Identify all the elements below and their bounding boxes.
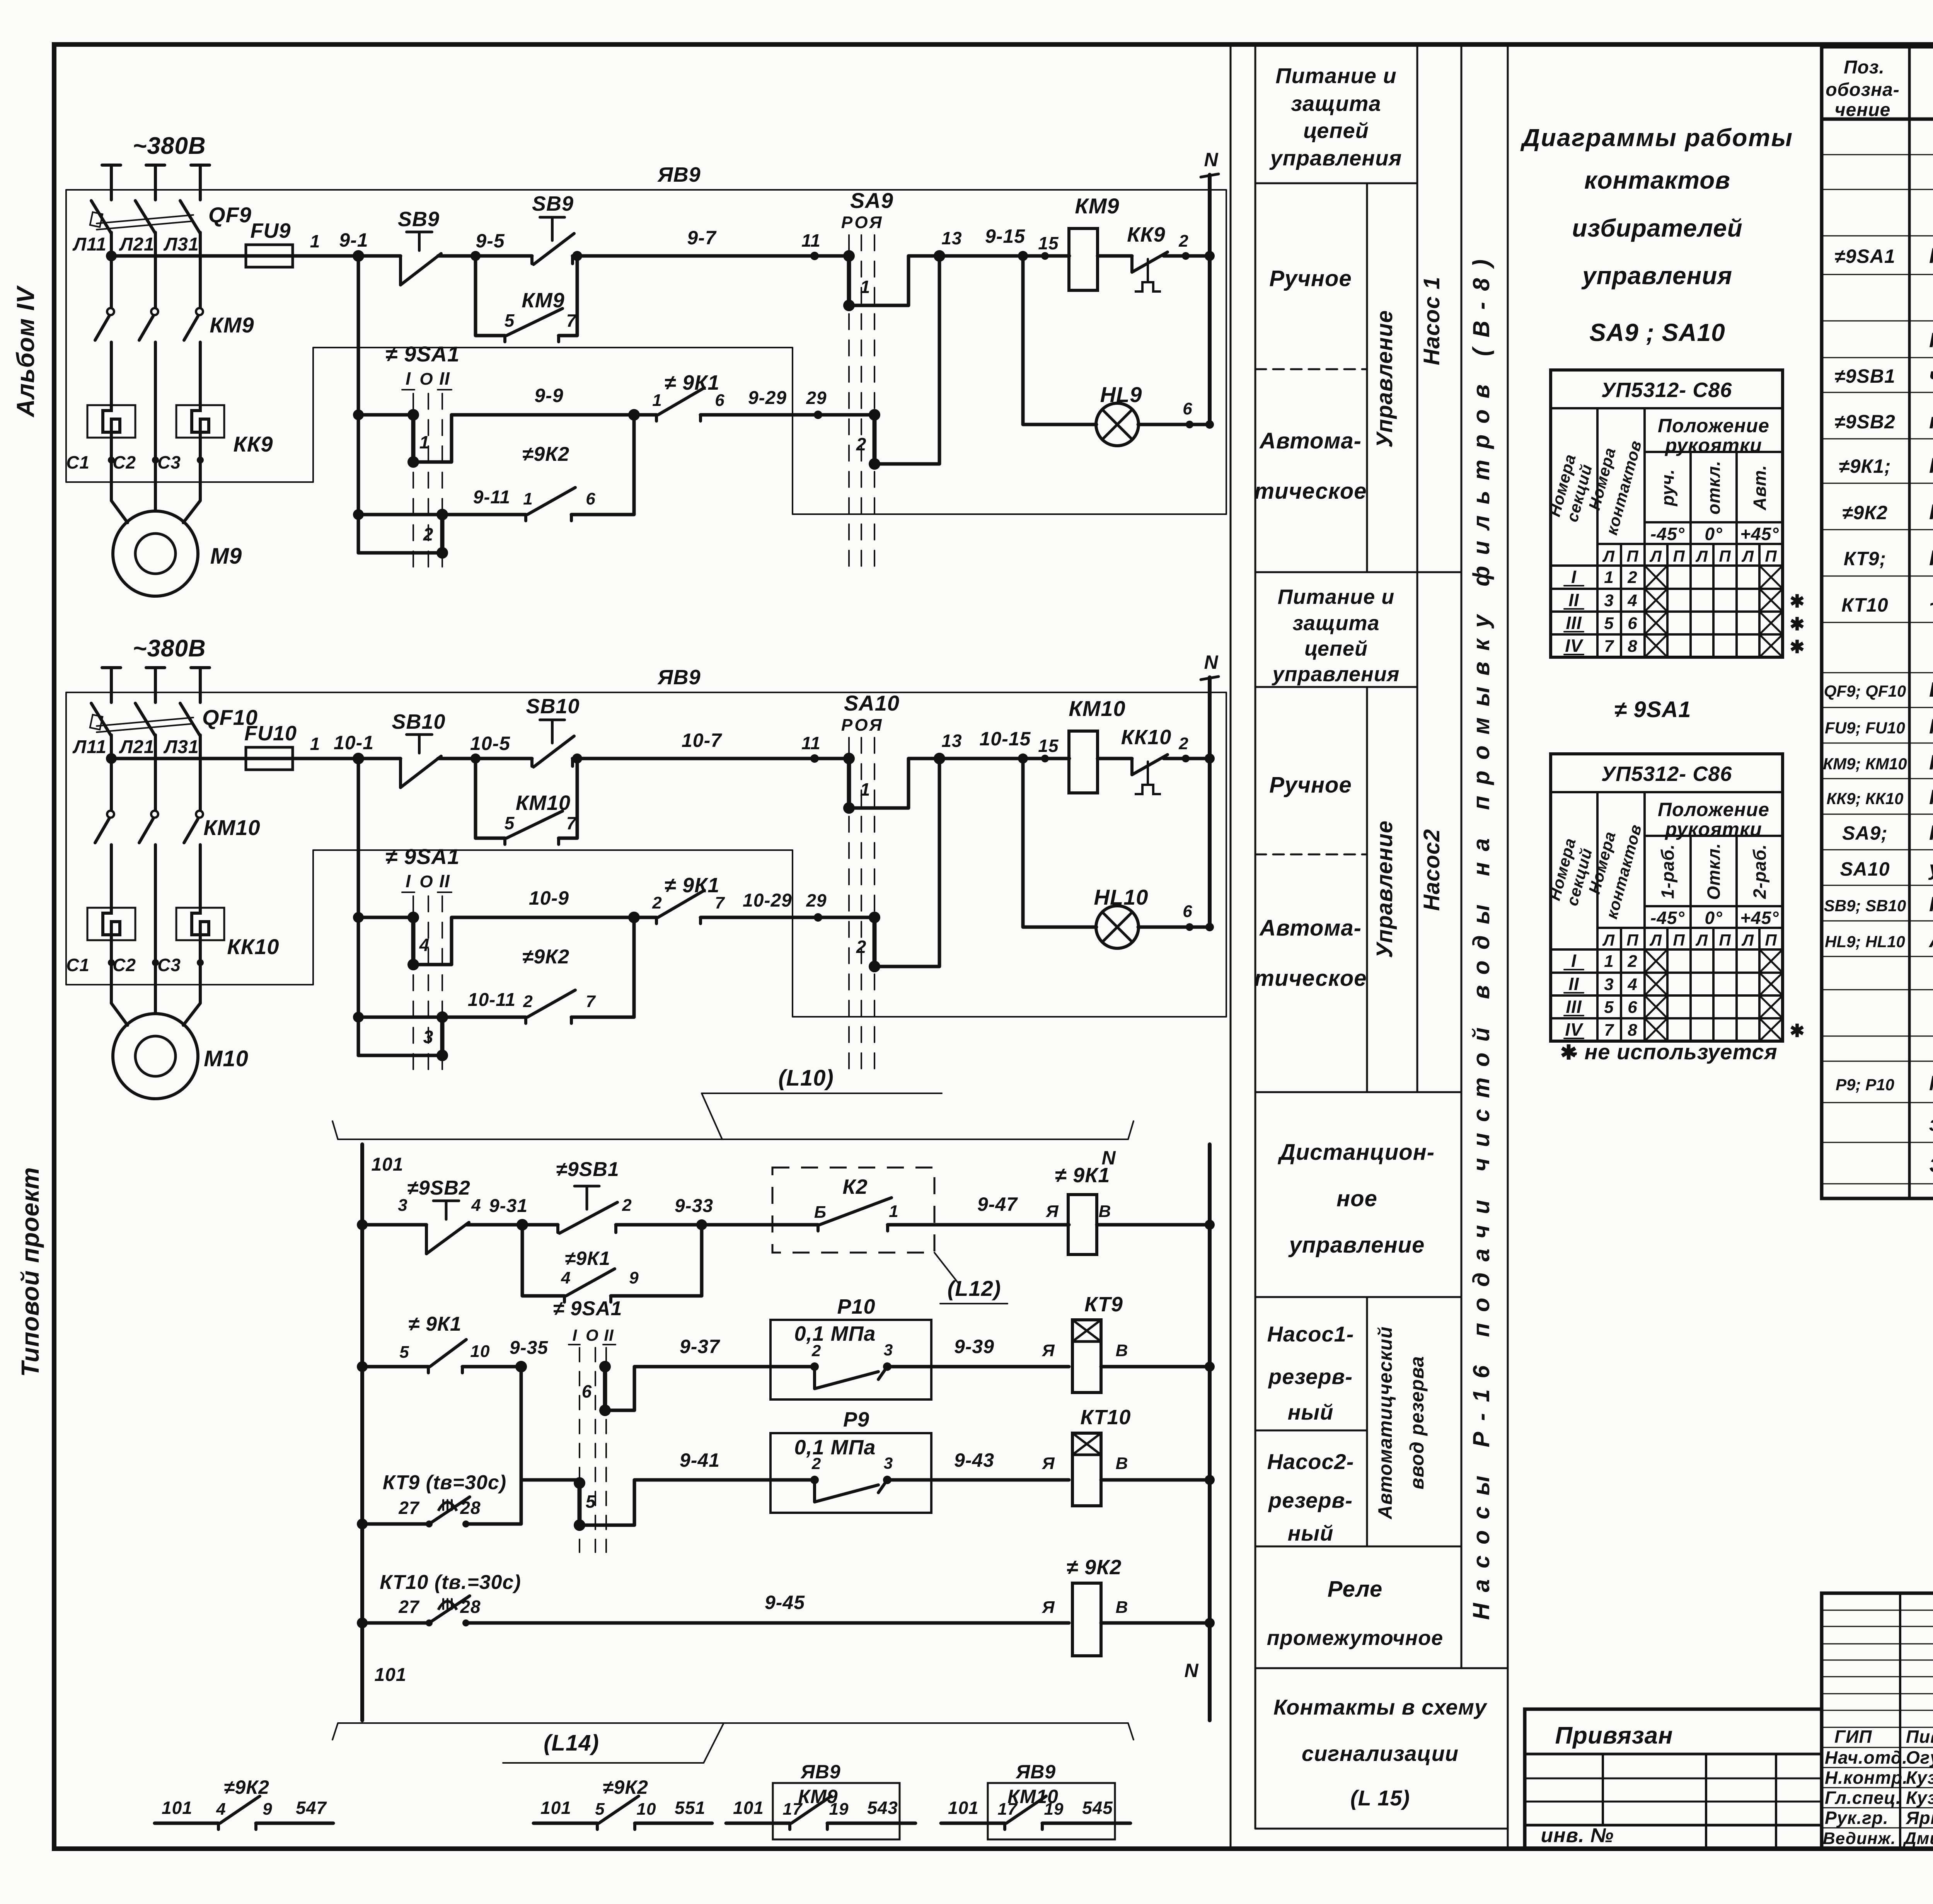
divider line between schematic field and zone-label column xyxy=(1230,44,1232,1849)
svg-text:2: 2 xyxy=(652,893,662,912)
wire to node 10-5 xyxy=(438,757,532,760)
contactor KM10 main contacts xyxy=(107,811,114,818)
svg-text:N: N xyxy=(1204,651,1218,673)
wire to node 1 xyxy=(293,757,401,760)
svg-text:11: 11 xyxy=(801,230,821,251)
node 10-1 xyxy=(353,753,364,764)
svg-text:Насос 1: Насос 1 xyxy=(1419,276,1444,365)
svg-text:11: 11 xyxy=(801,733,821,753)
svg-text:101: 101 xyxy=(162,1798,193,1818)
svg-text:Л: Л xyxy=(1602,931,1615,949)
control tap wire from Л11 (pump 10) xyxy=(111,757,246,760)
svg-text:10: 10 xyxy=(470,1342,490,1361)
svg-text:Дистанцион-: Дистанцион- xyxy=(1277,1140,1435,1165)
svg-text:Питание и: Питание и xyxy=(1278,585,1395,609)
svg-text:Л31: Л31 xyxy=(163,234,199,255)
svg-text:2: 2 xyxy=(1178,734,1188,753)
svg-text:О: О xyxy=(419,370,433,389)
thermal relay KK9 heaters xyxy=(87,405,135,438)
svg-text:Арматура сигнальная: Арматура сигнальная xyxy=(1928,929,1933,952)
svg-text:2: 2 xyxy=(856,434,867,454)
svg-text:Гл.спец.: Гл.спец. xyxy=(1825,1788,1901,1808)
svg-text:(L12): (L12) xyxy=(948,1276,1001,1301)
svg-text:ный: ный xyxy=(1288,1521,1334,1545)
zone box: Реле промежуточное xyxy=(1255,1667,1508,1669)
svg-text:КК9: КК9 xyxy=(234,432,273,456)
svg-text:тическое: тическое xyxy=(1254,479,1367,504)
svg-text:543: 543 xyxy=(867,1798,898,1818)
svg-text:УП5312- С86: УП5312- С86 xyxy=(1601,762,1732,786)
svg-text:ЭКМ-1У ; 0÷ 0,4 МПа ; ~: ЭКМ-1У ; 0÷ 0,4 МПа ; ~220В xyxy=(1929,1154,1933,1177)
svg-text:ГИП: ГИП xyxy=(1834,1727,1872,1747)
svg-text:Ярнаутов: Ярнаутов xyxy=(1906,1808,1933,1828)
rung 3: pressure switch Р9 to timer КТ10 xyxy=(520,1367,523,1480)
wire 10-9 from contact 4 to relay contact xyxy=(413,917,634,965)
svg-text:9-5: 9-5 xyxy=(476,230,505,252)
motor M10 xyxy=(113,1014,198,1099)
pushbutton SB10 (стоп) (NC) xyxy=(399,759,402,788)
zone box: Питание и защита цепей управления (насос 2) xyxy=(1255,686,1417,688)
svg-text:≠9К2: ≠9К2 xyxy=(1842,502,1888,523)
pushbutton SB10 (пуск) (NO) xyxy=(530,759,534,766)
svg-text:М9: М9 xyxy=(210,544,242,569)
svg-text:Кнопка управления КЕ011У3; и: Кнопка управления КЕ011У3; исп.2 xyxy=(1929,329,1933,352)
svg-text:SB9: SB9 xyxy=(398,208,440,231)
phase wire xyxy=(154,668,157,702)
svg-text:4: 4 xyxy=(1627,591,1637,610)
svg-text:Л11: Л11 xyxy=(72,737,107,757)
auto-mode feeder from node 10-1 xyxy=(357,759,360,1055)
svg-text:КМ10: КМ10 xyxy=(516,791,571,815)
svg-text:Питание и: Питание и xyxy=(1275,63,1396,88)
svg-text:Р9: Р9 xyxy=(843,1408,869,1431)
rung 4: timer contact КТ10 to relay ≠9К2 xyxy=(357,1618,368,1628)
svg-text:1: 1 xyxy=(310,734,320,754)
svg-text:≠ 9SA1: ≠ 9SA1 xyxy=(553,1297,622,1320)
svg-text:6: 6 xyxy=(715,391,724,410)
svg-text:КМ9; КМ10: КМ9; КМ10 xyxy=(1823,755,1907,773)
phase wire xyxy=(199,165,202,200)
svg-text:6: 6 xyxy=(582,1381,592,1401)
pushbutton SB9 (стоп) (NC) xyxy=(399,256,402,285)
svg-text:Диаграммы работы: Диаграммы работы xyxy=(1520,124,1793,152)
svg-text:≠ 9SA1: ≠ 9SA1 xyxy=(385,342,460,366)
svg-text:С3: С3 xyxy=(157,452,181,472)
svg-text:ЯВ9: ЯВ9 xyxy=(657,163,701,186)
svg-text:Реле: Реле xyxy=(1328,1577,1382,1602)
svg-text:III: III xyxy=(1566,613,1582,633)
svg-text:+45°: +45° xyxy=(1740,908,1779,928)
component list table frame xyxy=(1822,47,1933,1198)
svg-text:Пускатель магнитный: Пускатель магнитный xyxy=(1929,751,1933,774)
auto-mode feeder from node 9-1 xyxy=(357,256,360,553)
svg-text:≠ 9SA1: ≠ 9SA1 xyxy=(1614,697,1691,722)
phase supply terminal bar xyxy=(146,164,165,167)
svg-text:1: 1 xyxy=(860,779,871,799)
svg-text:101: 101 xyxy=(371,1154,403,1175)
svg-text:сигнализации: сигнализации xyxy=(1302,1741,1459,1766)
svg-text:SA10: SA10 xyxy=(844,691,900,715)
box ЯВ9 around contact КМ9 xyxy=(773,1783,900,1839)
svg-text:5: 5 xyxy=(505,813,515,833)
svg-text:В: В xyxy=(1116,1341,1128,1360)
cable bracket line (L10) xyxy=(332,1121,1134,1139)
svg-text:КТ9 (tв=30с): КТ9 (tв=30с) xyxy=(383,1471,506,1494)
contactor KM9 main contacts xyxy=(107,308,114,315)
svg-text:2: 2 xyxy=(1178,232,1188,251)
svg-text:Л11: Л11 xyxy=(72,234,107,255)
relay coil ≠9К2 xyxy=(1072,1583,1101,1656)
svg-text:Огурцов: Огурцов xyxy=(1906,1747,1933,1768)
selector SA9 contact 2 (авт.) xyxy=(873,415,877,464)
svg-text:Контакты в схему: Контакты в схему xyxy=(1273,1695,1488,1719)
svg-text:4: 4 xyxy=(216,1800,226,1819)
svg-text:Л31: Л31 xyxy=(163,737,199,757)
pushbutton ≠9SB1 (пуск) (NO) xyxy=(556,1225,559,1232)
svg-text:Л: Л xyxy=(1649,547,1662,565)
svg-text:551: 551 xyxy=(675,1798,706,1818)
zone box: Ручное (насос 2) xyxy=(1255,854,1367,856)
svg-text:Положение: Положение xyxy=(1658,415,1769,436)
rotated header Номера секций xyxy=(1596,792,1599,1041)
wire to node 2 and N xyxy=(1164,757,1210,760)
svg-text:Л: Л xyxy=(1741,547,1754,565)
svg-text:Кузнецов: Кузнецов xyxy=(1906,1788,1933,1808)
svg-text:2: 2 xyxy=(423,524,434,544)
svg-text:Ручное: Ручное xyxy=(1269,266,1352,291)
svg-text:Управление: Управление xyxy=(1372,310,1397,448)
svg-text:Я: Я xyxy=(1042,1598,1055,1617)
signal contact КМ10 17-19 wires 101/545 xyxy=(941,1822,1005,1825)
svg-text:HL9; HL10: HL9; HL10 xyxy=(1825,932,1905,951)
svg-text:I: I xyxy=(1571,951,1577,971)
junction node of auto wires xyxy=(628,912,640,923)
svg-text:Насосы Р-16 подачи чистой: Насосы Р-16 подачи чистой воды на промыв… xyxy=(1468,259,1494,1620)
svg-text:I: I xyxy=(406,368,411,389)
svg-text:15: 15 xyxy=(1038,233,1059,253)
svg-text:Рук.гр.: Рук.гр. xyxy=(1825,1808,1889,1828)
zone box: Насос 2 - резервный xyxy=(1255,1546,1461,1548)
svg-text:КМ9: КМ9 xyxy=(522,289,564,312)
svg-text:-45°: -45° xyxy=(1650,908,1685,928)
header columns руч./откл./Авт. xyxy=(1689,452,1692,657)
svg-text:+45°: +45° xyxy=(1740,524,1779,544)
svg-text:HL10: HL10 xyxy=(1094,885,1149,909)
svg-text:0,1 МПа: 0,1 МПа xyxy=(794,1322,876,1345)
svg-text:КМ9: КМ9 xyxy=(1075,194,1119,218)
table title УП5312-С86 xyxy=(1551,791,1783,793)
svg-text:П: П xyxy=(1719,931,1731,949)
svg-text:тическое: тическое xyxy=(1254,966,1367,991)
svg-text:- не используется: - не используется xyxy=(1570,1040,1778,1064)
svg-text:Л: Л xyxy=(1649,931,1662,949)
svg-text:П: П xyxy=(1626,547,1638,565)
selector diagram table frame 9SA1 xyxy=(1551,754,1783,1041)
rung 2: pressure switch Р10 to timer КТ9 xyxy=(357,1361,368,1372)
svg-text:черный ; „ Пуск": черный ; „ Пуск" xyxy=(1929,363,1933,387)
svg-text:промежуточное: промежуточное xyxy=(1267,1626,1443,1650)
svg-text:КК9: КК9 xyxy=(1127,223,1165,246)
svg-text:QF9: QF9 xyxy=(208,203,252,227)
phase supply terminal bar xyxy=(102,164,121,167)
svg-text:Нач.отд.: Нач.отд. xyxy=(1825,1747,1907,1768)
svg-text:7: 7 xyxy=(1604,637,1614,656)
node 13 xyxy=(934,753,945,764)
wire to node 1 xyxy=(293,254,401,258)
svg-text:(L10): (L10) xyxy=(778,1065,834,1091)
header Положение рукоятки xyxy=(1643,792,1646,1041)
svg-text:защита: защита xyxy=(1292,612,1379,635)
svg-text:SB10: SB10 xyxy=(526,695,580,718)
svg-text:5: 5 xyxy=(505,310,515,331)
svg-text:К2: К2 xyxy=(842,1175,868,1198)
svg-text:ное: ное xyxy=(1336,1186,1377,1211)
svg-text:≠9К2: ≠9К2 xyxy=(224,1776,269,1798)
svg-text:≠9К1: ≠9К1 xyxy=(565,1248,610,1269)
svg-text:ный: ный xyxy=(1288,1400,1334,1424)
svg-text:Переключатель: Переключатель xyxy=(1929,821,1933,844)
svg-text:9-41: 9-41 xyxy=(680,1449,720,1471)
svg-text:красный ; „ Стоп": красный ; „ Стоп" xyxy=(1929,409,1933,433)
svg-text:10-15: 10-15 xyxy=(980,728,1031,750)
contactor coil KM10 xyxy=(1069,731,1098,793)
svg-text:15: 15 xyxy=(1038,736,1059,756)
svg-text:управления: управления xyxy=(1272,663,1400,686)
svg-text:9-31: 9-31 xyxy=(489,1196,528,1216)
svg-text:10-1: 10-1 xyxy=(334,732,374,753)
svg-text:ввод резерва: ввод резерва xyxy=(1406,1356,1428,1489)
wire 9-7 to selector xyxy=(573,254,849,258)
phase supply terminal bar xyxy=(102,666,121,669)
svg-text:Реле времени РВП72-3121-00У4: Реле времени РВП72-3121-00У4; xyxy=(1929,545,1933,570)
svg-text:1: 1 xyxy=(652,391,662,410)
thermal relay KK10 heaters xyxy=(87,908,135,940)
svg-text:✱: ✱ xyxy=(1790,614,1805,634)
svg-text:5: 5 xyxy=(595,1800,605,1819)
svg-text:2: 2 xyxy=(622,1196,632,1215)
feed wire to lower selector contact xyxy=(358,1054,442,1057)
wire node 10-1 to selector contact 4 xyxy=(358,916,413,919)
timer coil КТ10 xyxy=(1072,1433,1101,1506)
svg-text:Авт.: Авт. xyxy=(1750,465,1770,510)
svg-text:П: П xyxy=(1626,931,1638,949)
timer contact КТ9 tв=30с xyxy=(357,1519,368,1529)
svg-text:Кузнецов: Кузнецов xyxy=(1906,1768,1933,1788)
zone box: Контакты в схему сигнализации (L15) xyxy=(1255,1828,1508,1830)
svg-text:9: 9 xyxy=(629,1268,639,1287)
control tap wire from Л11 (pump 9) xyxy=(111,254,246,258)
svg-text:Я: Я xyxy=(1045,1202,1059,1221)
svg-text:9-47: 9-47 xyxy=(977,1193,1018,1215)
svg-text:ЯВ9: ЯВ9 xyxy=(1015,1761,1056,1783)
svg-text:4: 4 xyxy=(471,1196,481,1215)
svg-text:101: 101 xyxy=(733,1798,764,1818)
svg-text:Выключатель автоматический: Выключатель автоматический xyxy=(1929,678,1933,701)
header row -45 0 +45 xyxy=(1645,521,1783,523)
selector SA9 contact 1 (ручное) xyxy=(847,256,851,305)
motor M9 xyxy=(113,511,198,596)
svg-text:П: П xyxy=(1765,547,1777,565)
svg-text:ЯВ9: ЯВ9 xyxy=(657,666,701,689)
svg-text:Положение: Положение xyxy=(1658,799,1769,820)
svg-text:Я: Я xyxy=(869,213,882,232)
phase wire xyxy=(110,668,113,702)
pushbutton ≠9SB2 (стоп) (NC) xyxy=(425,1225,428,1254)
wire node 9-1 to selector contact 1 xyxy=(358,413,413,417)
svg-text:Вединж.: Вединж. xyxy=(1823,1829,1896,1848)
phase wire xyxy=(154,165,157,200)
svg-text:29: 29 xyxy=(806,890,827,910)
svg-text:Насос2: Насос2 xyxy=(1419,829,1444,911)
svg-text:FU9: FU9 xyxy=(250,219,291,242)
svg-text:1: 1 xyxy=(523,489,533,508)
svg-text:1: 1 xyxy=(1604,568,1614,587)
contact state rows I-IV xyxy=(1551,948,1783,951)
svg-text:N: N xyxy=(1184,1660,1198,1681)
ladder left rail 101 xyxy=(360,1144,364,1720)
thermal relay KK9 NC contact xyxy=(1098,254,1132,258)
svg-text:(L 15): (L 15) xyxy=(1350,1786,1410,1810)
svg-text:В: В xyxy=(1099,1202,1111,1221)
svg-text:4: 4 xyxy=(1627,975,1637,994)
svg-text:II: II xyxy=(1568,974,1579,994)
svg-text:10: 10 xyxy=(637,1800,656,1819)
svg-text:II: II xyxy=(604,1326,614,1344)
svg-text:цепей: цепей xyxy=(1303,118,1369,143)
svg-text:~220В; tв. = 30с: ~220В; tв. = 30с xyxy=(1929,592,1933,616)
svg-text:КМ10: КМ10 xyxy=(1007,1786,1059,1807)
relay contact ≠9К2 rung 9-11 xyxy=(358,513,526,516)
selector 9SA1 contact 3 xyxy=(440,1017,445,1055)
zone box: Автоматическое (насос 2) xyxy=(1255,1091,1461,1093)
svg-text:I: I xyxy=(573,1326,578,1344)
wire 9-9 from contact 1 to relay contact xyxy=(413,415,634,462)
svg-text:Л21: Л21 xyxy=(119,234,154,255)
svg-text:≠9К2: ≠9К2 xyxy=(603,1776,648,1798)
svg-text:зирующий двухпозиционный: зирующий двухпозиционный xyxy=(1929,1112,1933,1135)
svg-text:✱: ✱ xyxy=(1790,637,1805,657)
svg-text:управления: управления xyxy=(1581,262,1732,290)
svg-text:≠9К1;: ≠9К1; xyxy=(1839,455,1891,477)
svg-text:9-1: 9-1 xyxy=(339,229,368,251)
svg-text:101: 101 xyxy=(540,1798,571,1818)
zone box: Дистанционное управление xyxy=(1255,1296,1461,1298)
title block: signature section frame xyxy=(1822,1593,1933,1849)
svg-text:9-9: 9-9 xyxy=(534,385,563,406)
svg-text:избирателей: избирателей xyxy=(1572,214,1742,242)
svg-text:Привязан: Привязан xyxy=(1555,1722,1673,1749)
svg-text:Поз.: Поз. xyxy=(1844,57,1885,78)
svg-text:9-45: 9-45 xyxy=(765,1592,805,1613)
selector 9SA1 contact 2 xyxy=(440,515,445,553)
svg-text:SA9;: SA9; xyxy=(1842,822,1888,844)
wire 10-7 to selector xyxy=(573,757,849,760)
svg-text:чение: чение xyxy=(1835,100,1891,120)
svg-text:29: 29 xyxy=(806,388,827,408)
svg-text:Я: Я xyxy=(1042,1341,1055,1360)
svg-text:Манометр показывающий сигнал: Манометр показывающий сигнали- xyxy=(1929,1072,1933,1095)
svg-text:-45°: -45° xyxy=(1650,524,1685,544)
svg-text:9-35: 9-35 xyxy=(510,1338,548,1358)
svg-text:КТ9;: КТ9; xyxy=(1844,548,1886,569)
svg-text:8: 8 xyxy=(1628,1021,1637,1040)
cabinet outline ЯВ9 (pump 10) xyxy=(66,692,1226,1017)
svg-text:≠9К2: ≠9К2 xyxy=(522,946,569,968)
selector 9SA1 contact 4 xyxy=(411,917,416,965)
svg-text:КТ10 (tв.=30с): КТ10 (tв.=30с) xyxy=(380,1571,521,1594)
svg-text:резерв-: резерв- xyxy=(1268,1488,1353,1512)
fuse FU9 xyxy=(246,245,293,267)
svg-text:Автоматицческий: Автоматицческий xyxy=(1374,1326,1396,1520)
selector 9SA1 contact 1 xyxy=(411,415,416,462)
svg-text:КТ10: КТ10 xyxy=(1081,1406,1131,1429)
svg-text:9-11: 9-11 xyxy=(473,487,511,508)
svg-text:✱: ✱ xyxy=(1790,1021,1805,1041)
svg-text:УП5312- С86: УП5312- С86 xyxy=(1601,378,1732,402)
svg-text:27: 27 xyxy=(398,1597,420,1617)
signal lamp branch HL9 xyxy=(1018,251,1028,261)
svg-text:2: 2 xyxy=(1627,952,1637,971)
svg-text:SA9: SA9 xyxy=(850,188,893,213)
component table row lines (ящик group) xyxy=(1822,707,1933,708)
selector SA10 contact 1 (ручное) xyxy=(847,759,851,808)
svg-text:0,1 МПа: 0,1 МПа xyxy=(794,1436,876,1459)
wire from SA contact 2 up to node 13 xyxy=(874,759,939,966)
svg-text:9: 9 xyxy=(263,1800,272,1819)
signal contact ≠9К2 4-9 wires 101/547 xyxy=(155,1822,218,1825)
svg-text:РПУ-2-36400У3Б ; ~220В; 4з: РПУ-2-36400У3Б ; ~220В; 4з xyxy=(1929,499,1933,524)
cable bracket line bottom xyxy=(332,1723,1134,1740)
svg-text:FU10: FU10 xyxy=(244,722,297,745)
svg-text:7: 7 xyxy=(715,893,725,912)
svg-text:27: 27 xyxy=(398,1498,420,1518)
svg-text:III: III xyxy=(1566,997,1582,1017)
pressure switch Р10 xyxy=(770,1320,931,1399)
relay coil ≠9К1 xyxy=(1068,1195,1097,1255)
svg-text:9-37: 9-37 xyxy=(680,1336,720,1357)
svg-text:(L14): (L14) xyxy=(544,1730,599,1756)
svg-text:HL9: HL9 xyxy=(1100,382,1142,407)
signal lamp branch HL10 xyxy=(1018,753,1028,764)
svg-text:2: 2 xyxy=(523,992,533,1011)
svg-text:7: 7 xyxy=(1604,1021,1614,1040)
svg-text:управление: управление xyxy=(1288,1232,1425,1258)
svg-text:2: 2 xyxy=(1627,568,1637,587)
svg-text:5: 5 xyxy=(399,1343,409,1362)
svg-text:I: I xyxy=(1571,567,1577,587)
svg-text:Н.контр.: Н.контр. xyxy=(1825,1768,1908,1788)
svg-text:Реле промежуточное: Реле промежуточное xyxy=(1929,453,1933,477)
cabinet outline ЯВ9 (pump 9) xyxy=(66,190,1226,514)
svg-text:≠ 9К1: ≠ 9К1 xyxy=(665,371,720,394)
svg-text:О: О xyxy=(586,1326,599,1344)
svg-text:контактов: контактов xyxy=(1584,166,1730,194)
junction node of auto wires xyxy=(628,409,640,421)
svg-text:2: 2 xyxy=(856,937,867,957)
header row -45 0 +45 xyxy=(1645,905,1783,907)
svg-text:Предохранитель: Предохранитель xyxy=(1929,715,1933,738)
svg-text:1: 1 xyxy=(419,432,430,452)
zone box: Питание и защита цепей управления (насос 1) xyxy=(1255,182,1417,184)
relay contact ≠9К2 rung 10-11 xyxy=(358,1016,526,1019)
svg-text:О: О xyxy=(419,872,433,891)
svg-text:SA9 ; SA10: SA9 ; SA10 xyxy=(1589,319,1725,346)
svg-text:101: 101 xyxy=(948,1798,979,1818)
svg-text:II: II xyxy=(439,871,450,891)
svg-text:≠ 9К1: ≠ 9К1 xyxy=(1055,1164,1110,1187)
zone label column grid xyxy=(1255,44,1256,1829)
svg-text:Автома-: Автома- xyxy=(1259,915,1362,941)
